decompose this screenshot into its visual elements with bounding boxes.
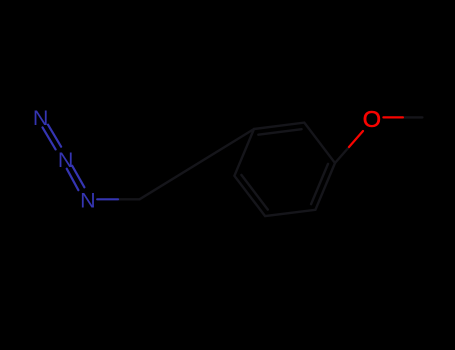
svg-text:N: N [80,188,96,212]
svg-text:N: N [58,148,74,172]
svg-text:O: O [363,106,381,132]
svg-text:N: N [33,106,49,130]
